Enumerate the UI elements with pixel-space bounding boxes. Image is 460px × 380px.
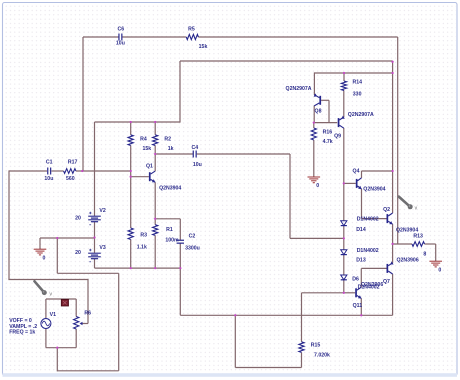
- wire C4 rail: [197, 153, 290, 155]
- V2 body: [88, 215, 101, 217]
- wire ground path vertical x118: [118, 273, 120, 371]
- resistor R17: [64, 159, 78, 182]
- svg-text:v: v: [50, 291, 53, 297]
- svg-text:V1: V1: [50, 312, 56, 318]
- wire top rail right segment: [198, 36, 397, 38]
- wire R15 loop riser: [234, 315, 236, 367]
- svg-text:Q2N2907A: Q2N2907A: [286, 86, 312, 92]
- transistor Q1: [146, 164, 181, 192]
- wire Q1 collector rail stub: [155, 153, 193, 155]
- capacitor C4: [191, 145, 201, 168]
- wire R13 to ground corner: [425, 243, 436, 245]
- svg-text:Q4: Q4: [353, 169, 360, 175]
- wire diode chain D14 top lead: [343, 183, 345, 220]
- diode D13: [341, 248, 379, 264]
- svg-text:1.1k: 1.1k: [137, 244, 147, 250]
- resistor R3: [128, 228, 147, 250]
- ground 0 left: [34, 249, 47, 261]
- junction Q1 base: [130, 176, 132, 178]
- svg-text:3300u: 3300u: [185, 245, 200, 251]
- wire V+ rail y61: [180, 60, 393, 62]
- svg-text:D1N4002: D1N4002: [357, 248, 379, 254]
- junction output node R13: [391, 243, 393, 245]
- junction R14 top rail: [343, 72, 345, 74]
- diode D6: [341, 275, 380, 290]
- wire R16 top lead: [313, 123, 315, 128]
- svg-text:D14: D14: [356, 227, 366, 233]
- C2 body: [177, 239, 184, 241]
- R3 body: [128, 228, 133, 240]
- svg-text:1k: 1k: [168, 146, 174, 152]
- wire feedback right vertical: [397, 37, 399, 244]
- capacitor C6: [116, 26, 125, 46]
- wire D13 to D6: [343, 255, 345, 275]
- resistor R13: [412, 234, 426, 258]
- junction V+ corner x392: [391, 72, 393, 74]
- R15 body: [299, 342, 304, 353]
- resistor R2: [153, 135, 174, 152]
- svg-text:R15: R15: [311, 343, 321, 349]
- junction V+ corner x392 top: [391, 61, 393, 63]
- junction R1 V- rail: [154, 267, 156, 269]
- wire input rail to C1: [9, 170, 47, 172]
- current marker box W1: [61, 299, 68, 306]
- resistor R14: [341, 80, 362, 98]
- wire V+ feed vertical x392: [392, 73, 394, 171]
- V1 body: [41, 319, 51, 329]
- svg-text:C4: C4: [191, 145, 198, 151]
- wire R17 to Q1 base node: [76, 170, 131, 172]
- battery V3: [75, 245, 106, 262]
- svg-text:Q11: Q11: [353, 303, 363, 309]
- wire top rail left segment: [83, 36, 119, 38]
- svg-text:10u: 10u: [193, 162, 202, 168]
- wire D13 top lead: [343, 238, 345, 249]
- wire R4 top lead: [130, 122, 132, 135]
- wire Q4 collector riser: [361, 171, 363, 178]
- wire ground stem left: [39, 238, 41, 249]
- C1 body: [47, 168, 49, 175]
- wire C2 top lead: [179, 219, 181, 240]
- transistor Q2: [383, 207, 418, 233]
- wire D6 bottom lead: [343, 280, 345, 293]
- wire Q7 collector drop: [392, 274, 394, 315]
- junction V1 loop bottom: [56, 347, 58, 349]
- svg-text:R6: R6: [84, 311, 91, 317]
- svg-text:0: 0: [316, 183, 319, 189]
- potentiometer R6: [74, 311, 92, 329]
- svg-text:20: 20: [75, 215, 81, 221]
- wire V- rail left: [95, 267, 181, 269]
- C6 body: [118, 34, 120, 41]
- svg-text:V3: V3: [99, 245, 105, 251]
- transistor Q4: [353, 169, 386, 193]
- junction C2 V- rail: [179, 267, 181, 269]
- battery V2: [75, 208, 106, 225]
- ground 0 middle: [308, 177, 321, 189]
- wire Q7 base lead: [361, 267, 386, 269]
- wire V- rail right: [180, 314, 392, 316]
- svg-text:20: 20: [75, 250, 81, 256]
- junction V2 V3 midpoint: [93, 236, 95, 238]
- wire ground horizontal: [40, 237, 95, 239]
- wire V1 loop bottom: [46, 347, 76, 349]
- D14 body: [341, 221, 347, 226]
- wire Q9 collector lead: [343, 128, 345, 183]
- junction Q1 collector R2: [154, 153, 156, 155]
- wire R15 bottom lead: [301, 352, 303, 367]
- Q11 body: [355, 288, 357, 297]
- junction diode chain signal: [343, 237, 345, 239]
- voltage probe on output: [399, 197, 418, 212]
- wire signal mid vertical: [289, 154, 291, 238]
- voltage probe on input wire: [35, 281, 53, 297]
- left ground symbol: [34, 248, 47, 250]
- junction D6 Q11 base R15: [343, 292, 345, 294]
- R16 body: [311, 128, 316, 140]
- svg-text:330: 330: [353, 92, 362, 98]
- R4 body: [128, 135, 133, 146]
- svg-text:D13: D13: [356, 258, 366, 264]
- svg-text:R1: R1: [166, 227, 173, 233]
- wire R2 bottom lead: [154, 146, 156, 155]
- wire V+ rail upper: [95, 121, 181, 123]
- wire Q1 collector lead: [154, 154, 156, 171]
- svg-text:V2: V2: [99, 208, 105, 214]
- wire input left vertical: [8, 170, 10, 279]
- svg-text:R13: R13: [413, 234, 423, 240]
- wire R1 bottom lead: [154, 235, 156, 268]
- wire ground path horizontal y273: [57, 272, 118, 274]
- wire ground path to V1 loop: [56, 348, 58, 372]
- R13 body: [412, 242, 425, 247]
- svg-text:7.020k: 7.020k: [314, 353, 330, 359]
- wire Q8 emitter lead: [313, 72, 315, 95]
- capacitor C1: [44, 159, 53, 182]
- svg-text:Q2N3904: Q2N3904: [159, 185, 181, 191]
- wire Q2 base lead: [362, 218, 387, 220]
- wire R6 bottom lead: [75, 329, 77, 348]
- transistor Q8: [286, 86, 322, 115]
- R1 body: [153, 225, 158, 236]
- wire R3 top lead: [130, 177, 132, 228]
- transistor Q9: [334, 112, 374, 139]
- wire Q11 base lead: [344, 292, 355, 294]
- R14 body: [341, 81, 346, 91]
- svg-text:R5: R5: [188, 26, 195, 32]
- resistor R16: [311, 128, 333, 145]
- Q8 body: [319, 96, 321, 105]
- svg-text:D1N4002: D1N4002: [357, 217, 379, 223]
- R2 body: [153, 135, 158, 146]
- transistor Q7: [383, 257, 419, 285]
- wire Q4 collector rail: [362, 170, 393, 172]
- capacitor C2: [177, 234, 200, 252]
- svg-text:R3: R3: [140, 233, 147, 239]
- transistor Q11: [353, 282, 384, 309]
- resistor R4: [128, 135, 151, 152]
- svg-text:8: 8: [423, 251, 426, 257]
- resistor R5: [186, 26, 207, 50]
- svg-text:D6: D6: [352, 277, 359, 283]
- Q7 body: [387, 264, 389, 273]
- wire Q1 base lead: [131, 176, 149, 178]
- Q2 body: [387, 214, 389, 223]
- junction Q4 collector rail: [391, 170, 393, 172]
- wire V+ corner drop x392: [392, 61, 394, 73]
- right ground symbol: [429, 260, 442, 262]
- wire Q11 emitter drop: [360, 298, 362, 315]
- wire V+ rail y73: [314, 72, 392, 74]
- wire R1 top lead: [154, 219, 156, 225]
- wire R14 bottom to Q9 emitter: [343, 91, 345, 118]
- wire top rail mid segment (C6 to R5): [122, 36, 186, 38]
- Q9 body: [338, 118, 340, 127]
- svg-text:R2: R2: [164, 136, 171, 142]
- R17 body: [64, 169, 76, 174]
- wire Q2 emitter drop: [392, 224, 394, 244]
- wire signal to diode chain: [290, 237, 344, 239]
- wire R15 bottom horizontal: [235, 367, 301, 369]
- junction R3 V- rail: [130, 267, 132, 269]
- svg-text:Q9: Q9: [334, 133, 341, 139]
- wire C2 bottom lead: [179, 243, 181, 315]
- svg-text:Q2N2907A: Q2N2907A: [348, 112, 374, 118]
- wire R6 wiper vertical: [87, 279, 89, 324]
- wire V1 bottom lead: [45, 329, 47, 348]
- svg-text:Q2N3904: Q2N3904: [363, 186, 385, 192]
- svg-text:Q2N3904: Q2N3904: [396, 227, 418, 233]
- wire R4 bottom lead / base node: [130, 146, 132, 177]
- wire R6 top lead: [75, 299, 77, 317]
- svg-text:R17: R17: [68, 159, 78, 165]
- svg-text:C2: C2: [189, 234, 196, 240]
- junction Q1 base input node: [81, 170, 83, 172]
- wire V+ rail riser: [179, 61, 181, 123]
- wire Q7 emitter riser: [392, 244, 394, 263]
- R5 body: [186, 34, 198, 39]
- wire V3 bottom lead: [94, 259, 96, 268]
- wire output node to R13: [393, 243, 412, 245]
- R6 wiper arrow: [80, 322, 83, 326]
- wire R15 node horizontal: [302, 292, 344, 294]
- wire Q2 collector riser: [392, 171, 394, 213]
- ground 0 right: [429, 261, 442, 273]
- wire Q1 emitter to C2: [155, 218, 180, 220]
- C4 body: [192, 151, 194, 158]
- wire R16 ground stem: [313, 140, 315, 177]
- V3 body: [88, 252, 101, 254]
- svg-text:560: 560: [66, 176, 75, 182]
- wire ground path bottom y371: [57, 370, 118, 372]
- wire ground drop x57: [56, 238, 58, 273]
- svg-text:R4: R4: [140, 137, 147, 143]
- svg-text:10u: 10u: [116, 41, 125, 47]
- wire probe horizontal: [8, 279, 88, 281]
- wire Q8 base drop: [328, 100, 330, 122]
- wire R6 wiper lead: [81, 323, 88, 325]
- junction R4 input rail: [130, 170, 132, 172]
- wire Q1 emitter lead: [154, 182, 156, 219]
- Q4 body: [356, 179, 358, 188]
- svg-text:C6: C6: [117, 26, 124, 32]
- svg-text:Q2: Q2: [383, 207, 390, 213]
- wire Q4 base lead: [344, 182, 356, 184]
- svg-text:0: 0: [438, 267, 441, 273]
- D6 body: [341, 275, 347, 280]
- wire Q11 collector riser: [360, 268, 362, 287]
- wire V1 loop top: [46, 298, 76, 300]
- resistor R15: [299, 342, 330, 359]
- svg-text:Q7: Q7: [383, 279, 390, 285]
- resistor R1: [153, 225, 179, 244]
- wire D14 to signal node: [343, 226, 345, 239]
- svg-text:15k: 15k: [199, 44, 208, 50]
- junction R2 top: [154, 121, 156, 123]
- svg-text:Q2N3906: Q2N3906: [361, 282, 383, 288]
- wire Q8 collector lead: [313, 106, 315, 123]
- wire R3 bottom lead: [130, 240, 132, 269]
- junction Q1 emitter R1 C2: [154, 218, 156, 220]
- wire V1 top lead: [45, 299, 47, 318]
- wire R2 top lead: [154, 122, 156, 135]
- Q1 body: [149, 172, 151, 181]
- wire C1 to R17: [51, 170, 63, 172]
- svg-text:Q1: Q1: [146, 164, 153, 170]
- wire V+ drop from rail to V2: [94, 122, 96, 216]
- middle ground symbol: [308, 176, 321, 178]
- wire R15 top lead: [301, 293, 303, 342]
- sine source V1: [9, 312, 56, 335]
- D13 body: [341, 250, 347, 255]
- diode D14: [341, 217, 379, 234]
- wire R14 top lead: [343, 73, 345, 81]
- svg-text:R14: R14: [353, 80, 363, 86]
- junction Q4 base Q9 collector: [343, 182, 345, 184]
- svg-text:C1: C1: [46, 159, 53, 165]
- wire Q4 emitter drop: [361, 189, 363, 219]
- svg-text:15k: 15k: [142, 146, 151, 152]
- svg-text:v: v: [415, 205, 418, 211]
- junction R15 loop V- rail: [234, 314, 236, 316]
- svg-text:FREQ = 1k: FREQ = 1k: [9, 330, 35, 336]
- wire V2 V3 junction lead: [94, 222, 96, 253]
- svg-text:10u: 10u: [44, 176, 53, 182]
- R6 body: [74, 317, 79, 330]
- junction ground drop: [56, 237, 58, 239]
- svg-text:Q8: Q8: [315, 109, 322, 115]
- svg-text:Q2N3906: Q2N3906: [397, 257, 419, 263]
- junction Q8 collector R16: [313, 121, 315, 123]
- junction R4 top: [130, 121, 132, 123]
- wire Q8 base stub: [321, 99, 329, 101]
- wire Q8 collector node horizontal: [314, 122, 337, 124]
- svg-text:0: 0: [42, 255, 45, 261]
- svg-text:R16: R16: [323, 129, 333, 135]
- junction Q11 emitter V- rail: [360, 314, 362, 316]
- wire left feedback drop: [82, 37, 84, 171]
- wire right ground stem: [435, 244, 437, 261]
- svg-text:4.7k: 4.7k: [323, 139, 333, 145]
